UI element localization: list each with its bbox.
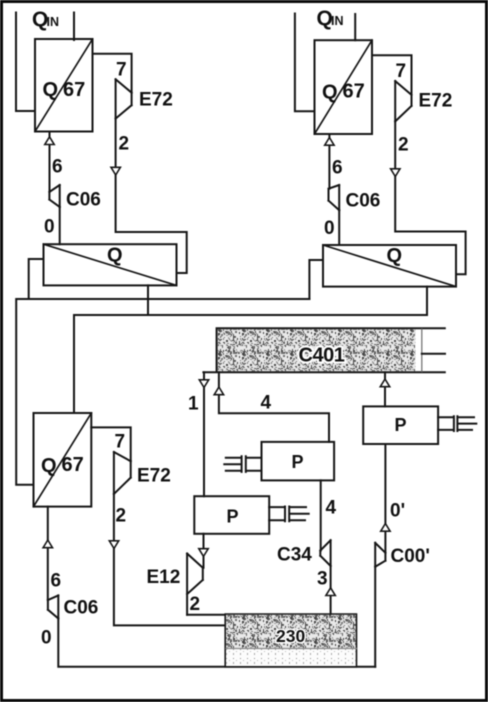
wire left-side of right wide Q [309, 260, 323, 299]
arrow up stream 6 (top-right) [325, 138, 334, 146]
wire left-side of wide Q [29, 259, 44, 299]
svg-text:C06: C06 [64, 598, 99, 619]
arrow up stream 6 (top-left) [45, 137, 54, 145]
svg-text:0: 0 [44, 217, 55, 238]
column C401 outline [203, 328, 444, 372]
svg-text:E72: E72 [137, 466, 171, 487]
svg-text:67: 67 [62, 454, 84, 476]
wire P3 down to E12 [203, 534, 205, 568]
heat exchanger Q/67 (top-left) [35, 39, 93, 132]
pump P3 box [194, 496, 269, 534]
svg-text:C34: C34 [277, 545, 312, 566]
svg-text:6: 6 [332, 158, 343, 179]
column C401 fill [218, 329, 416, 371]
compressor C06 (top-right) [329, 185, 340, 210]
svg-text:6: 6 [51, 571, 62, 592]
svg-text:6: 6 [52, 157, 63, 178]
diagonal of Q/67 (top-right) [315, 40, 373, 134]
svg-text:2: 2 [398, 135, 409, 156]
svg-text:7: 7 [115, 432, 126, 453]
svg-text:2: 2 [116, 506, 127, 527]
tank 230 dark fill [226, 615, 356, 649]
heat exchanger Q/67 (bottom-left) [34, 413, 92, 507]
svg-text:E72: E72 [419, 91, 453, 112]
column C401 inner divider [421, 329, 423, 372]
arrow up stream 3 [326, 588, 335, 596]
wire stream 2 (top-left) [116, 119, 187, 273]
wire stream 2 (bottom-left) [114, 494, 225, 625]
compressor C06 (top-left) [49, 185, 59, 207]
arrow up stream 6 (bottom-left) [43, 540, 52, 548]
svg-text:4: 4 [326, 498, 337, 519]
arrow down on stream 2 (top-left) [111, 167, 120, 175]
wire stream 0 bottom run [58, 619, 375, 667]
bus wire upper (y=299) [16, 299, 309, 485]
tank 230 outline [225, 614, 356, 667]
svg-text:IN: IN [331, 14, 344, 28]
svg-text:0': 0' [390, 501, 405, 522]
svg-text:230: 230 [276, 626, 305, 646]
svg-text:67: 67 [63, 79, 85, 101]
wire bottom of wide Q [147, 285, 149, 315]
svg-text:4: 4 [261, 393, 272, 414]
expander E72 (bottom-left) [114, 452, 131, 494]
wire stream 2 (top-right) [395, 121, 465, 274]
compressor C34 [320, 540, 330, 566]
wire Qin right drop (right) [354, 14, 356, 40]
svg-text:2: 2 [190, 594, 201, 615]
svg-text:P: P [395, 415, 407, 435]
pump P1 box [363, 406, 438, 444]
heat exchanger Q (left wide) [44, 244, 177, 285]
svg-text:E12: E12 [147, 567, 181, 588]
diagonal of left wide Q [44, 244, 177, 285]
arrow down into E12 [199, 549, 208, 557]
wire pump P1 to C401 [384, 372, 386, 406]
svg-text:Q: Q [322, 82, 338, 104]
svg-text:0: 0 [41, 628, 52, 649]
heat exchanger Q (right wide) [323, 245, 456, 287]
column C401 middle stub [422, 353, 445, 355]
arrow down stream 2 (bottom-left) [109, 541, 118, 549]
svg-text:C06: C06 [66, 190, 101, 211]
wire to E72 (bottom-left) [91, 427, 130, 461]
expander E72 (top-left) [116, 79, 132, 118]
wire stream 4 (pump P2 to C401) [219, 372, 329, 442]
diagonal of right wide Q [323, 245, 456, 287]
wire stream 6 with up arrow (top-right) [328, 134, 330, 189]
arrow up into C401 right [380, 379, 389, 387]
wire Qin right drop [73, 13, 75, 41]
diagonal of Q/67 (top-left) [35, 39, 93, 132]
piston icon P1 [438, 416, 476, 431]
svg-text:Q: Q [387, 245, 403, 267]
arrow up stream 0' [381, 524, 390, 532]
svg-text:IN: IN [47, 15, 60, 29]
svg-text:P: P [292, 452, 304, 472]
wire C00' down to 230 [374, 567, 376, 667]
wire Qin left bracket (right) [295, 14, 315, 112]
svg-text:3: 3 [317, 569, 328, 590]
svg-text:C401: C401 [299, 345, 345, 367]
wire E12 to 230 [187, 614, 225, 616]
wire stream 6 with up arrow (top-left) [49, 132, 51, 193]
heat exchanger Q/67 (top-right) [315, 40, 373, 134]
svg-text:Q: Q [107, 245, 123, 267]
wire P2 down to C34 [320, 480, 322, 550]
pump P2 box [262, 442, 335, 481]
svg-text:1: 1 [188, 394, 199, 415]
piston icon P2 [224, 456, 261, 472]
compressor C06 (bottom-left) [48, 595, 58, 618]
tank 230 dotted strip [226, 649, 356, 667]
svg-text:Q: Q [43, 79, 59, 101]
svg-text:7: 7 [396, 61, 407, 82]
wire stream 0 (top-left) [59, 207, 61, 244]
svg-text:C06: C06 [346, 191, 381, 212]
svg-text:0: 0 [324, 218, 335, 239]
svg-text:Q: Q [41, 455, 57, 477]
piston icon P3 [269, 507, 309, 522]
wire Qin left bracket [16, 13, 35, 112]
wire stream 3 (C34 to 230) [330, 566, 332, 614]
wire stream 1 (C401 to pump P3) [203, 372, 205, 496]
arrow down stream 1 [199, 380, 208, 388]
arrow up stream 4 [214, 387, 223, 395]
svg-text:C00': C00' [391, 546, 430, 567]
svg-text:67: 67 [343, 81, 365, 103]
tank 230 divider [226, 648, 357, 650]
svg-text:2: 2 [119, 134, 130, 155]
wire P1 down to C00' [384, 444, 386, 553]
diagonal of Q/67 (bottom-left) [34, 413, 92, 507]
arrow down on stream 2 (top-right) [391, 169, 400, 177]
svg-text:7: 7 [116, 60, 127, 81]
wire stream 6 (bottom-left) [47, 507, 49, 600]
svg-text:P: P [227, 507, 239, 527]
wire stream 0 (top-right) [338, 210, 340, 245]
svg-text:E72: E72 [139, 90, 173, 111]
bus wire lower (y=315) [74, 315, 427, 413]
wire bottom of right wide Q [426, 287, 428, 315]
expander E72 (top-right) [395, 81, 411, 121]
compressor C00' [375, 543, 385, 567]
wire to E72 (top-left) [93, 54, 132, 93]
expander E12 [187, 554, 203, 615]
wire to E72 (top-right) [372, 55, 412, 95]
